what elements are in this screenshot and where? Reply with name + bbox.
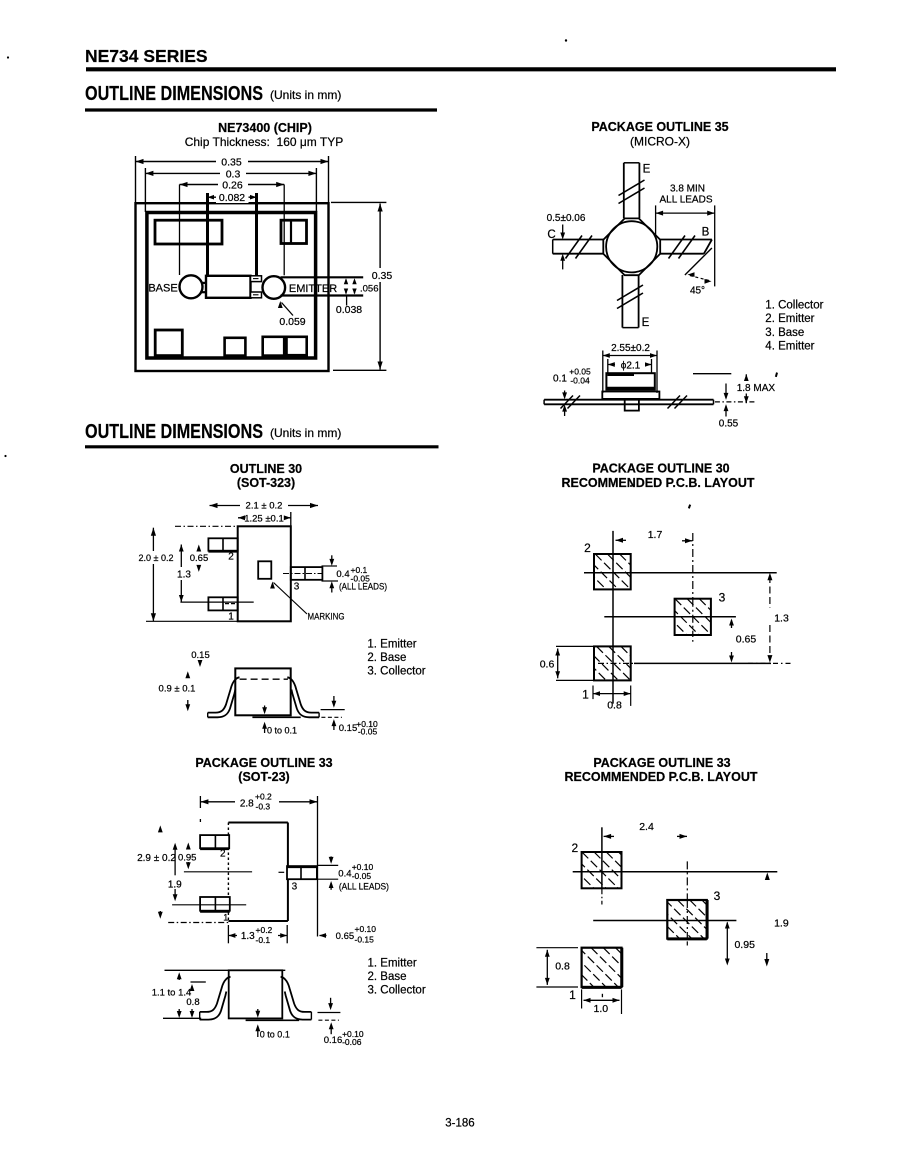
svg-text:(MICRO-X): (MICRO-X) — [630, 135, 690, 149]
svg-text:0.15: 0.15 — [339, 723, 358, 734]
svg-text:.056: .056 — [360, 284, 379, 295]
svg-text:1.3: 1.3 — [177, 570, 191, 581]
chip dim 0.35 horizontal — [135, 156, 137, 203]
svg-text:3. Collector: 3. Collector — [368, 985, 426, 997]
chip dim 0.3 horizontal — [144, 168, 146, 212]
svg-text:2: 2 — [228, 552, 234, 563]
chip dim 0.26 horizontal — [179, 185, 181, 276]
svg-text:PACKAGE OUTLINE 33: PACKAGE OUTLINE 33 — [593, 756, 730, 770]
svg-text:1: 1 — [569, 988, 576, 1002]
svg-text:NE73400 (CHIP): NE73400 (CHIP) — [218, 121, 312, 135]
svg-text:PACKAGE OUTLINE 35: PACKAGE OUTLINE 35 — [591, 120, 728, 134]
svg-text:2.55±0.2: 2.55±0.2 — [611, 343, 650, 354]
svg-text:0.5±0.06: 0.5±0.06 — [547, 213, 586, 224]
emitter lines extending right — [281, 276, 364, 278]
chip outer square — [136, 203, 329, 371]
svg-text:0.55: 0.55 — [719, 419, 739, 430]
svg-text:Chip Thickness: 160 μm TYP: Chip Thickness: 160 μm TYP — [185, 135, 344, 149]
svg-text:MARKING: MARKING — [308, 612, 345, 623]
sot323 dim 0.65 — [198, 547, 200, 552]
svg-text:-0.06: -0.06 — [342, 1037, 362, 1047]
micro-x bottom lead E — [621, 275, 623, 328]
pcb33 pad 3 centerlines — [686, 861, 688, 945]
svg-text:0.65: 0.65 — [190, 553, 209, 564]
svg-text:2.8: 2.8 — [240, 799, 254, 810]
svg-text:2.0 ± 0.2: 2.0 ± 0.2 — [139, 553, 174, 563]
svg-text:ϕ2.1: ϕ2.1 — [621, 361, 641, 372]
svg-text:0.082: 0.082 — [219, 192, 245, 204]
pcb30 pad 2 crosshair — [612, 531, 614, 704]
svg-text:1: 1 — [223, 913, 228, 923]
sot23 side seating line under body — [246, 1019, 300, 1021]
svg-text:45°: 45° — [690, 286, 705, 297]
svg-text:(Units in mm): (Units in mm) — [270, 88, 341, 102]
svg-text:3: 3 — [714, 889, 721, 903]
sot23 dim 1.9 — [174, 845, 176, 875]
svg-text:0.059: 0.059 — [279, 316, 305, 328]
svg-text:1.8 MAX: 1.8 MAX — [737, 383, 776, 394]
svg-text:(ALL LEADS): (ALL LEADS) — [339, 881, 389, 892]
svg-text:-0.15: -0.15 — [355, 934, 375, 944]
pcb30 pad 1 centerline — [598, 662, 634, 664]
micro-x body circle — [606, 221, 657, 272]
sot323 lead 3 — [291, 567, 323, 580]
svg-text:-0.05: -0.05 — [352, 871, 372, 881]
svg-text:3. Collector: 3. Collector — [367, 666, 425, 678]
svg-text:0.4: 0.4 — [338, 868, 351, 879]
pcb30 pad 2 — [594, 554, 631, 589]
svg-text:2.1 ± 0.2: 2.1 ± 0.2 — [246, 501, 283, 512]
svg-text:1. Emitter: 1. Emitter — [368, 958, 417, 970]
title rule — [86, 67, 836, 71]
sot23 lead 1 — [200, 897, 230, 911]
micro-x 45 degree chamfer extension — [685, 248, 712, 275]
svg-text:3: 3 — [294, 582, 300, 593]
sot323 side seating line — [252, 716, 300, 718]
svg-text:PACKAGE OUTLINE 30: PACKAGE OUTLINE 30 — [592, 462, 729, 476]
svg-text:0.16: 0.16 — [324, 1035, 343, 1046]
sot323 lead 2 — [208, 538, 237, 550]
svg-text:0 to 0.1: 0 to 0.1 — [260, 1030, 290, 1040]
sot323 marking box — [258, 561, 271, 579]
sot323 side left lead — [208, 677, 240, 712]
svg-text:0.038: 0.038 — [336, 304, 362, 316]
sot323 side dim 0.15 +0.10 -0.05 — [321, 709, 345, 711]
sot323 dim 1.25±0.1 — [238, 517, 291, 519]
sot23 body — [228, 822, 288, 824]
svg-text:0.65: 0.65 — [336, 931, 355, 942]
svg-text:1. Emitter: 1. Emitter — [367, 639, 416, 651]
chip bottom pad 1 — [155, 330, 182, 356]
svg-text:OUTLINE DIMENSIONS: OUTLINE DIMENSIONS — [85, 421, 263, 443]
sot323 dim 2.0±0.2 — [152, 528, 154, 622]
micro-x side center tab — [625, 399, 639, 411]
micro-x left lead C — [553, 239, 604, 241]
svg-text:0.8: 0.8 — [555, 961, 570, 973]
svg-text:3: 3 — [292, 882, 298, 893]
pcb33 pad 1 — [582, 948, 622, 987]
chip dim 0.082 horizontal — [206, 193, 209, 276]
svg-text:-0.05: -0.05 — [358, 727, 378, 737]
micro-x side lead strip — [544, 399, 713, 401]
svg-text:0.95: 0.95 — [178, 853, 197, 864]
svg-text:0.1: 0.1 — [553, 374, 567, 385]
sot23 side right lead — [281, 977, 312, 1012]
svg-text:1.3: 1.3 — [241, 931, 255, 942]
pcb30 dim 0.8 — [592, 686, 594, 700]
sot23 pin3 centerline left — [184, 871, 252, 873]
pcb30 pad 1 — [594, 646, 631, 680]
pcb30 dim 0.6 — [556, 645, 593, 647]
micro-x right lead break marks — [669, 236, 686, 259]
sot323 dim 0.4 all leads — [322, 565, 338, 567]
svg-text:0.65: 0.65 — [736, 634, 757, 646]
svg-text:0.95: 0.95 — [734, 939, 755, 951]
svg-text:1.3: 1.3 — [774, 613, 789, 625]
sot23 side left lead — [200, 977, 231, 1012]
micro-x 45 degree dim — [690, 276, 709, 281]
sot23 side dim 0 to 0.1 — [257, 1009, 259, 1016]
svg-text:0.26: 0.26 — [222, 179, 243, 191]
pcb30 pad 3 centerlines — [692, 533, 694, 642]
pcb30 pad 3 — [675, 599, 711, 635]
svg-text:0.15: 0.15 — [191, 650, 210, 661]
pcb33 pad 2 crosshair — [601, 827, 603, 888]
chip inner square — [147, 213, 316, 359]
svg-text:0.8: 0.8 — [186, 997, 199, 1008]
svg-text:0.8: 0.8 — [607, 700, 622, 712]
sot323 side right lead — [287, 677, 319, 712]
svg-text:OUTLINE DIMENSIONS: OUTLINE DIMENSIONS — [85, 83, 263, 105]
svg-text:OUTLINE 30: OUTLINE 30 — [230, 462, 302, 476]
micro-x side cap body — [606, 373, 654, 389]
svg-text:2.4: 2.4 — [639, 821, 654, 833]
micro-x side dim 1.8 MAX — [693, 373, 731, 375]
svg-text:1.0: 1.0 — [593, 1003, 608, 1015]
pcb30 dim 0.65 — [729, 619, 734, 626]
svg-text:ALL LEADS: ALL LEADS — [660, 195, 713, 206]
emitter finger bottom tab — [251, 292, 262, 298]
svg-text:-0.1: -0.1 — [256, 935, 271, 945]
micro-x side flange — [602, 392, 659, 399]
svg-text:(SOT-23): (SOT-23) — [238, 770, 289, 784]
svg-text:NE734 SERIES: NE734 SERIES — [85, 46, 208, 66]
svg-text:2: 2 — [571, 841, 578, 855]
emitter finger top tab — [251, 276, 262, 282]
svg-text:0.9 ± 0.1: 0.9 ± 0.1 — [159, 684, 196, 695]
micro-x bottom lead break marks — [617, 285, 643, 301]
sot23 bottom dash-dot extension — [168, 922, 229, 924]
sot323 side body — [235, 668, 290, 715]
svg-text:1.1 to 1.4: 1.1 to 1.4 — [152, 988, 192, 999]
chip dim 0.059 leader — [282, 303, 294, 316]
sot323 side dim 0 to 0.1 — [264, 706, 266, 713]
svg-text:BASE: BASE — [148, 283, 177, 295]
sot23 side top extension line — [165, 969, 286, 971]
svg-text:B: B — [702, 227, 710, 239]
micro-x top lead break marks — [619, 180, 645, 196]
svg-text:0 to 0.1: 0 to 0.1 — [267, 726, 297, 736]
chip top-right pad — [281, 220, 307, 243]
chip dim 0.35 vertical — [331, 201, 386, 203]
svg-text:3.8 MIN: 3.8 MIN — [670, 184, 705, 195]
sot23 dim 0.4 all leads — [318, 864, 338, 866]
svg-text:0.35: 0.35 — [372, 270, 393, 282]
svg-text:PACKAGE OUTLINE 33: PACKAGE OUTLINE 33 — [195, 756, 332, 770]
micro-x right lead B with chamfer — [660, 239, 712, 241]
chip bottom pad 3 — [263, 337, 285, 356]
svg-text:E: E — [643, 164, 651, 176]
micro-x top lead E — [623, 163, 625, 218]
chip base pad circle — [180, 275, 203, 298]
svg-text:1: 1 — [582, 688, 589, 702]
svg-text:(SOT-323): (SOT-323) — [237, 476, 295, 490]
pcb33 dim 1.9 — [765, 873, 770, 881]
svg-text:+0.2: +0.2 — [256, 925, 273, 935]
sot323 body — [238, 526, 291, 621]
sot23 lead 2 — [200, 835, 229, 848]
sot23 lead 3 — [287, 866, 317, 879]
pcb33 pad 2 — [582, 852, 622, 888]
svg-text:3. Base: 3. Base — [765, 327, 804, 339]
pcb33 dim 1.0 — [581, 989, 583, 1008]
pcb33 dim 0.95 — [726, 923, 728, 963]
svg-text:1.9: 1.9 — [774, 918, 789, 930]
sot323 lead 1 — [208, 597, 237, 610]
svg-text:C: C — [547, 229, 555, 241]
svg-text:2. Emitter: 2. Emitter — [765, 313, 814, 325]
chip dim 0.038 leader — [346, 297, 348, 306]
sot23 dim 1.3 +0.2 -0.1 — [227, 925, 229, 943]
svg-text:+0.2: +0.2 — [255, 792, 272, 802]
micro-x side dim 0.55 — [715, 401, 756, 403]
section underline (top) — [85, 108, 437, 111]
micro-x side dim phi2.1 — [607, 359, 609, 374]
svg-text:+0.10: +0.10 — [355, 924, 377, 934]
svg-text:3-186: 3-186 — [445, 1118, 474, 1130]
chip bottom pad 2 — [225, 338, 246, 356]
svg-text:1.25 ±0.1: 1.25 ±0.1 — [244, 514, 284, 525]
svg-text:RECOMMENDED P.C.B. LAYOUT: RECOMMENDED P.C.B. LAYOUT — [561, 476, 754, 490]
sot23 dim 2.8 +0.2 -0.3 — [199, 796, 201, 808]
svg-text:-0.04: -0.04 — [570, 376, 590, 386]
svg-text:(Units in mm): (Units in mm) — [270, 426, 341, 440]
svg-text:EMITTER: EMITTER — [289, 283, 337, 295]
sot23 side left extension 0.8 — [191, 981, 206, 983]
sot323 body top dash-dot extension — [175, 525, 238, 527]
svg-text:2. Base: 2. Base — [367, 652, 406, 664]
sot23 side seating line left — [163, 1017, 201, 1019]
section underline (middle) — [85, 445, 439, 448]
svg-text:2.9 ± 0.2: 2.9 ± 0.2 — [137, 853, 176, 864]
chip bottom pad 4 — [287, 337, 307, 355]
sot323 dim 1.3 — [180, 545, 182, 603]
svg-text:-0.3: -0.3 — [256, 802, 271, 812]
micro-x side strip break marks — [561, 396, 574, 409]
sot23 side dim 0.16 +0.10 -0.06 — [318, 1012, 341, 1014]
svg-text:(ALL LEADS): (ALL LEADS) — [339, 581, 387, 592]
chip emitter pad circle — [263, 276, 286, 299]
chip dim .056 arrows — [345, 280, 347, 284]
scan artifact dots — [565, 39, 567, 41]
svg-text:RECOMMENDED P.C.B. LAYOUT: RECOMMENDED P.C.B. LAYOUT — [564, 770, 757, 784]
svg-text:0.6: 0.6 — [540, 659, 555, 671]
svg-text:3: 3 — [719, 591, 726, 605]
svg-text:2: 2 — [220, 849, 226, 860]
pcb30 dim 1.3 — [769, 576, 771, 608]
micro-x body octagon — [603, 218, 660, 275]
sot323 marking leader — [274, 583, 308, 615]
sot23 dim 0.65 +0.10 -0.15 — [320, 935, 327, 937]
sot23 dim 0.95 — [187, 845, 189, 850]
svg-text:0.4: 0.4 — [336, 569, 349, 580]
sot323 dim 2.1±0.2 — [210, 505, 319, 507]
svg-text:2. Base: 2. Base — [368, 971, 407, 983]
chip center bar — [206, 276, 251, 298]
svg-text:1.7: 1.7 — [648, 529, 663, 541]
chip top-left pad — [155, 220, 222, 244]
pcb33 pad 3 — [667, 900, 707, 939]
svg-text:1.9: 1.9 — [168, 880, 182, 891]
sot23 side body — [229, 970, 283, 1018]
svg-text:2: 2 — [584, 541, 591, 555]
svg-text:4. Emitter: 4. Emitter — [765, 341, 814, 353]
svg-text:E: E — [642, 317, 650, 329]
pcb33 dim 0.8 — [536, 947, 578, 949]
sot23 dim 2.9±0.2 — [159, 828, 161, 833]
svg-text:1. Collector: 1. Collector — [765, 300, 823, 312]
micro-x left lead break marks — [566, 236, 583, 259]
